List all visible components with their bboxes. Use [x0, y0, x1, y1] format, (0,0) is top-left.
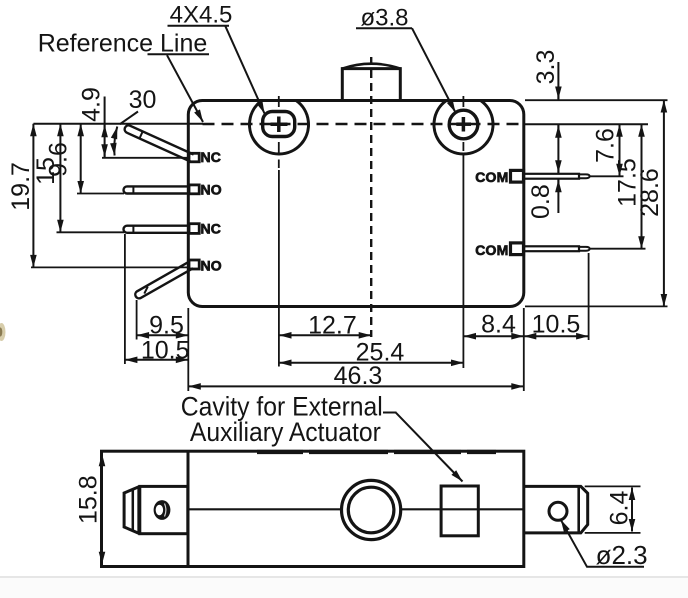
svg-text:NO: NO: [201, 257, 222, 273]
bottom view hidden cavity dashed thick line: [257, 450, 303, 454]
svg-text:19.7: 19.7: [7, 162, 35, 211]
extension line from right hole down to dims: [462, 153, 464, 368]
extension COM1 level: [589, 175, 624, 177]
dim 6.4: [631, 488, 633, 532]
svg-text:9.6: 9.6: [45, 142, 73, 177]
svg-text:7.6: 7.6: [592, 128, 620, 163]
extension tab bottom: [585, 532, 641, 534]
dim 30 leader: [120, 112, 138, 125]
svg-text:12.7: 12.7: [308, 312, 357, 340]
svg-text:9.5: 9.5: [149, 312, 184, 340]
svg-text:NO: NO: [201, 182, 222, 198]
extension tab top: [585, 485, 641, 487]
extension line terminal 3 level: [57, 231, 125, 233]
tab hole 2.3: [549, 502, 567, 520]
extension body bottom right: [525, 305, 668, 307]
extension COM2 tip down: [588, 253, 590, 340]
leader 4X4.5 to left slot: [225, 26, 264, 114]
vertical dashed centerline through plunger: [370, 57, 372, 337]
svg-text:COM: COM: [475, 169, 508, 185]
dim 12.7 line: [279, 334, 371, 336]
right tab inner arc: [577, 487, 580, 532]
left hole vertical center ticks: [278, 96, 280, 107]
plunger circle inner: [348, 487, 394, 533]
leader cavity to square: [383, 412, 397, 414]
svg-text:0.8: 0.8: [527, 184, 555, 219]
leader dia3.8 to right hole: [412, 28, 456, 112]
terminal NC1 angled blade: [125, 125, 194, 161]
COM2 blade: [524, 246, 579, 251]
svg-text:6.4: 6.4: [606, 491, 634, 526]
right hole vertical center ticks: [462, 96, 464, 107]
reference line: dashed centerline through body: [203, 123, 524, 126]
bottom view body: [102, 451, 524, 566]
extension line terminal 2 level: [77, 193, 124, 195]
svg-text:Auxiliary Actuator: Auxiliary Actuator: [190, 417, 381, 447]
terminal NC1 tip tick: [140, 131, 143, 138]
left hole center cross: [271, 122, 288, 126]
terminal NO4 stub: [189, 260, 199, 269]
terminal NO2 tip tick: [132, 186, 134, 193]
extension line terminal 4 level: [31, 266, 188, 268]
right hole round hole: [449, 110, 478, 139]
extension COM2 level: [589, 248, 646, 250]
cavity square: [441, 486, 478, 536]
extension from NO4 tip down: [136, 300, 138, 340]
leader dia2.3: [561, 520, 644, 567]
svg-text:30: 30: [129, 86, 157, 114]
left hole elongated slot: [263, 112, 295, 137]
svg-text:ø2.3: ø2.3: [596, 540, 648, 570]
COM2 blade tip: [579, 247, 590, 251]
right tab: [524, 486, 588, 533]
svg-text:8.4: 8.4: [481, 311, 516, 339]
extension body right edge down: [523, 308, 525, 391]
terminal NO4 tip tick: [144, 287, 148, 294]
extension body top right: [525, 99, 668, 101]
svg-text:3.3: 3.3: [532, 50, 560, 85]
clip cap lines: [132, 490, 135, 531]
dim 30 angle arc: [114, 127, 117, 156]
svg-text:10.5: 10.5: [141, 336, 190, 364]
bottom view mid line: [188, 508, 341, 510]
terminal NC1 stub: [189, 153, 199, 162]
terminal NC3 stub: [189, 224, 199, 234]
dim 3.3: [557, 62, 559, 100]
yellow artifact left edge: [0, 323, 6, 341]
dim 9.6 line: [80, 124, 82, 194]
bottom gray band: [0, 576, 688, 578]
dim 19.7 line: [32, 124, 34, 268]
terminal NO2 stub: [189, 185, 199, 194]
left mounting hole boss: [250, 100, 309, 154]
terminal NO2 blade: [124, 186, 190, 193]
plunger button on top: [342, 69, 400, 101]
dim 15 line: [59, 124, 61, 233]
bottom view internal wall line: [187, 451, 190, 566]
COM1 stub: [511, 170, 524, 182]
svg-text:46.3: 46.3: [334, 362, 383, 390]
extension body left edge down: [187, 308, 189, 391]
dim 10.5 left line: [125, 359, 188, 361]
plunger circle outer: [342, 480, 401, 539]
dim 10.5 right line: [524, 335, 589, 337]
clip chamfered cap: [124, 486, 140, 533]
terminal NO4 angled blade: [135, 262, 193, 299]
dim 15.8 arrows: [101, 454, 103, 466]
extension line terminal 1 level: [102, 157, 188, 159]
COM1 blade: [524, 174, 579, 179]
svg-text:28.6: 28.6: [636, 168, 664, 217]
svg-text:4X4.5: 4X4.5: [170, 2, 233, 29]
svg-text:COM: COM: [475, 242, 508, 258]
dim 0.8: [557, 165, 559, 173]
COM2 stub: [511, 243, 524, 255]
clip hole ring: [154, 500, 171, 520]
right hole center cross: [456, 122, 471, 126]
svg-text:4.9: 4.9: [78, 87, 106, 122]
dim 4.9 line: [104, 97, 106, 158]
dim 25.4 line: [279, 362, 464, 364]
dim 46.3 line: [188, 385, 524, 387]
COM1 blade tip: [579, 174, 590, 178]
terminal NC3 blade: [123, 226, 189, 233]
extension from NC3 tip down: [124, 234, 126, 364]
terminal NC3 tip tick: [132, 226, 134, 233]
svg-text:NC: NC: [201, 221, 222, 237]
svg-text:NC: NC: [201, 149, 222, 165]
right mounting hole boss: [434, 100, 493, 154]
dim 9.5 line: [137, 334, 189, 336]
dim 17.5 line: [641, 124, 643, 249]
dim 28.6 line: [663, 100, 665, 307]
reference line: solid right extension: [524, 123, 648, 125]
dim 8.4 line: [464, 335, 524, 337]
switch body outline (top view): [188, 101, 524, 307]
svg-text:15.8: 15.8: [75, 475, 103, 524]
extension line from left hole down to dims: [278, 170, 280, 367]
reference line: solid left extension: [33, 123, 202, 125]
dim 7.6 line: [619, 124, 621, 176]
clip block: [140, 486, 188, 533]
leader reference line to body corner: [167, 55, 203, 122]
svg-text:10.5: 10.5: [532, 311, 581, 339]
